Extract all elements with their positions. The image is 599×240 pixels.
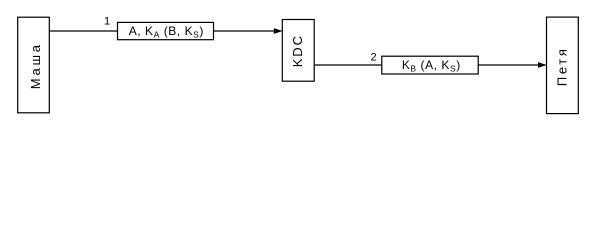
wire: message box 2 to Petya [478,64,540,66]
box: Masha (sender) [18,17,50,113]
svg-text:Маша: Маша [28,42,43,89]
box: KDC [282,20,314,82]
wire: message box 1 to KDC [214,30,277,32]
svg-text:1: 1 [104,16,110,28]
svg-text:2: 2 [371,51,377,63]
arrowhead into KDC [274,28,283,34]
svg-text:A, KA (B, KS): A, KA (B, KS) [129,24,204,39]
box: Petya (receiver) [547,17,579,114]
message box 2: KB (A, KS) [382,56,478,74]
step label 1 [104,16,110,28]
message box 1: A, KA (B, KS) [118,22,214,39]
svg-text:KDC: KDC [290,34,305,67]
step label 2 [371,51,377,63]
arrowhead into Petya [538,62,547,68]
svg-text:Петя: Петя [555,47,570,87]
wire: KDC to message box 2 [314,64,382,66]
wire: Masha to message box 1 [49,30,117,32]
